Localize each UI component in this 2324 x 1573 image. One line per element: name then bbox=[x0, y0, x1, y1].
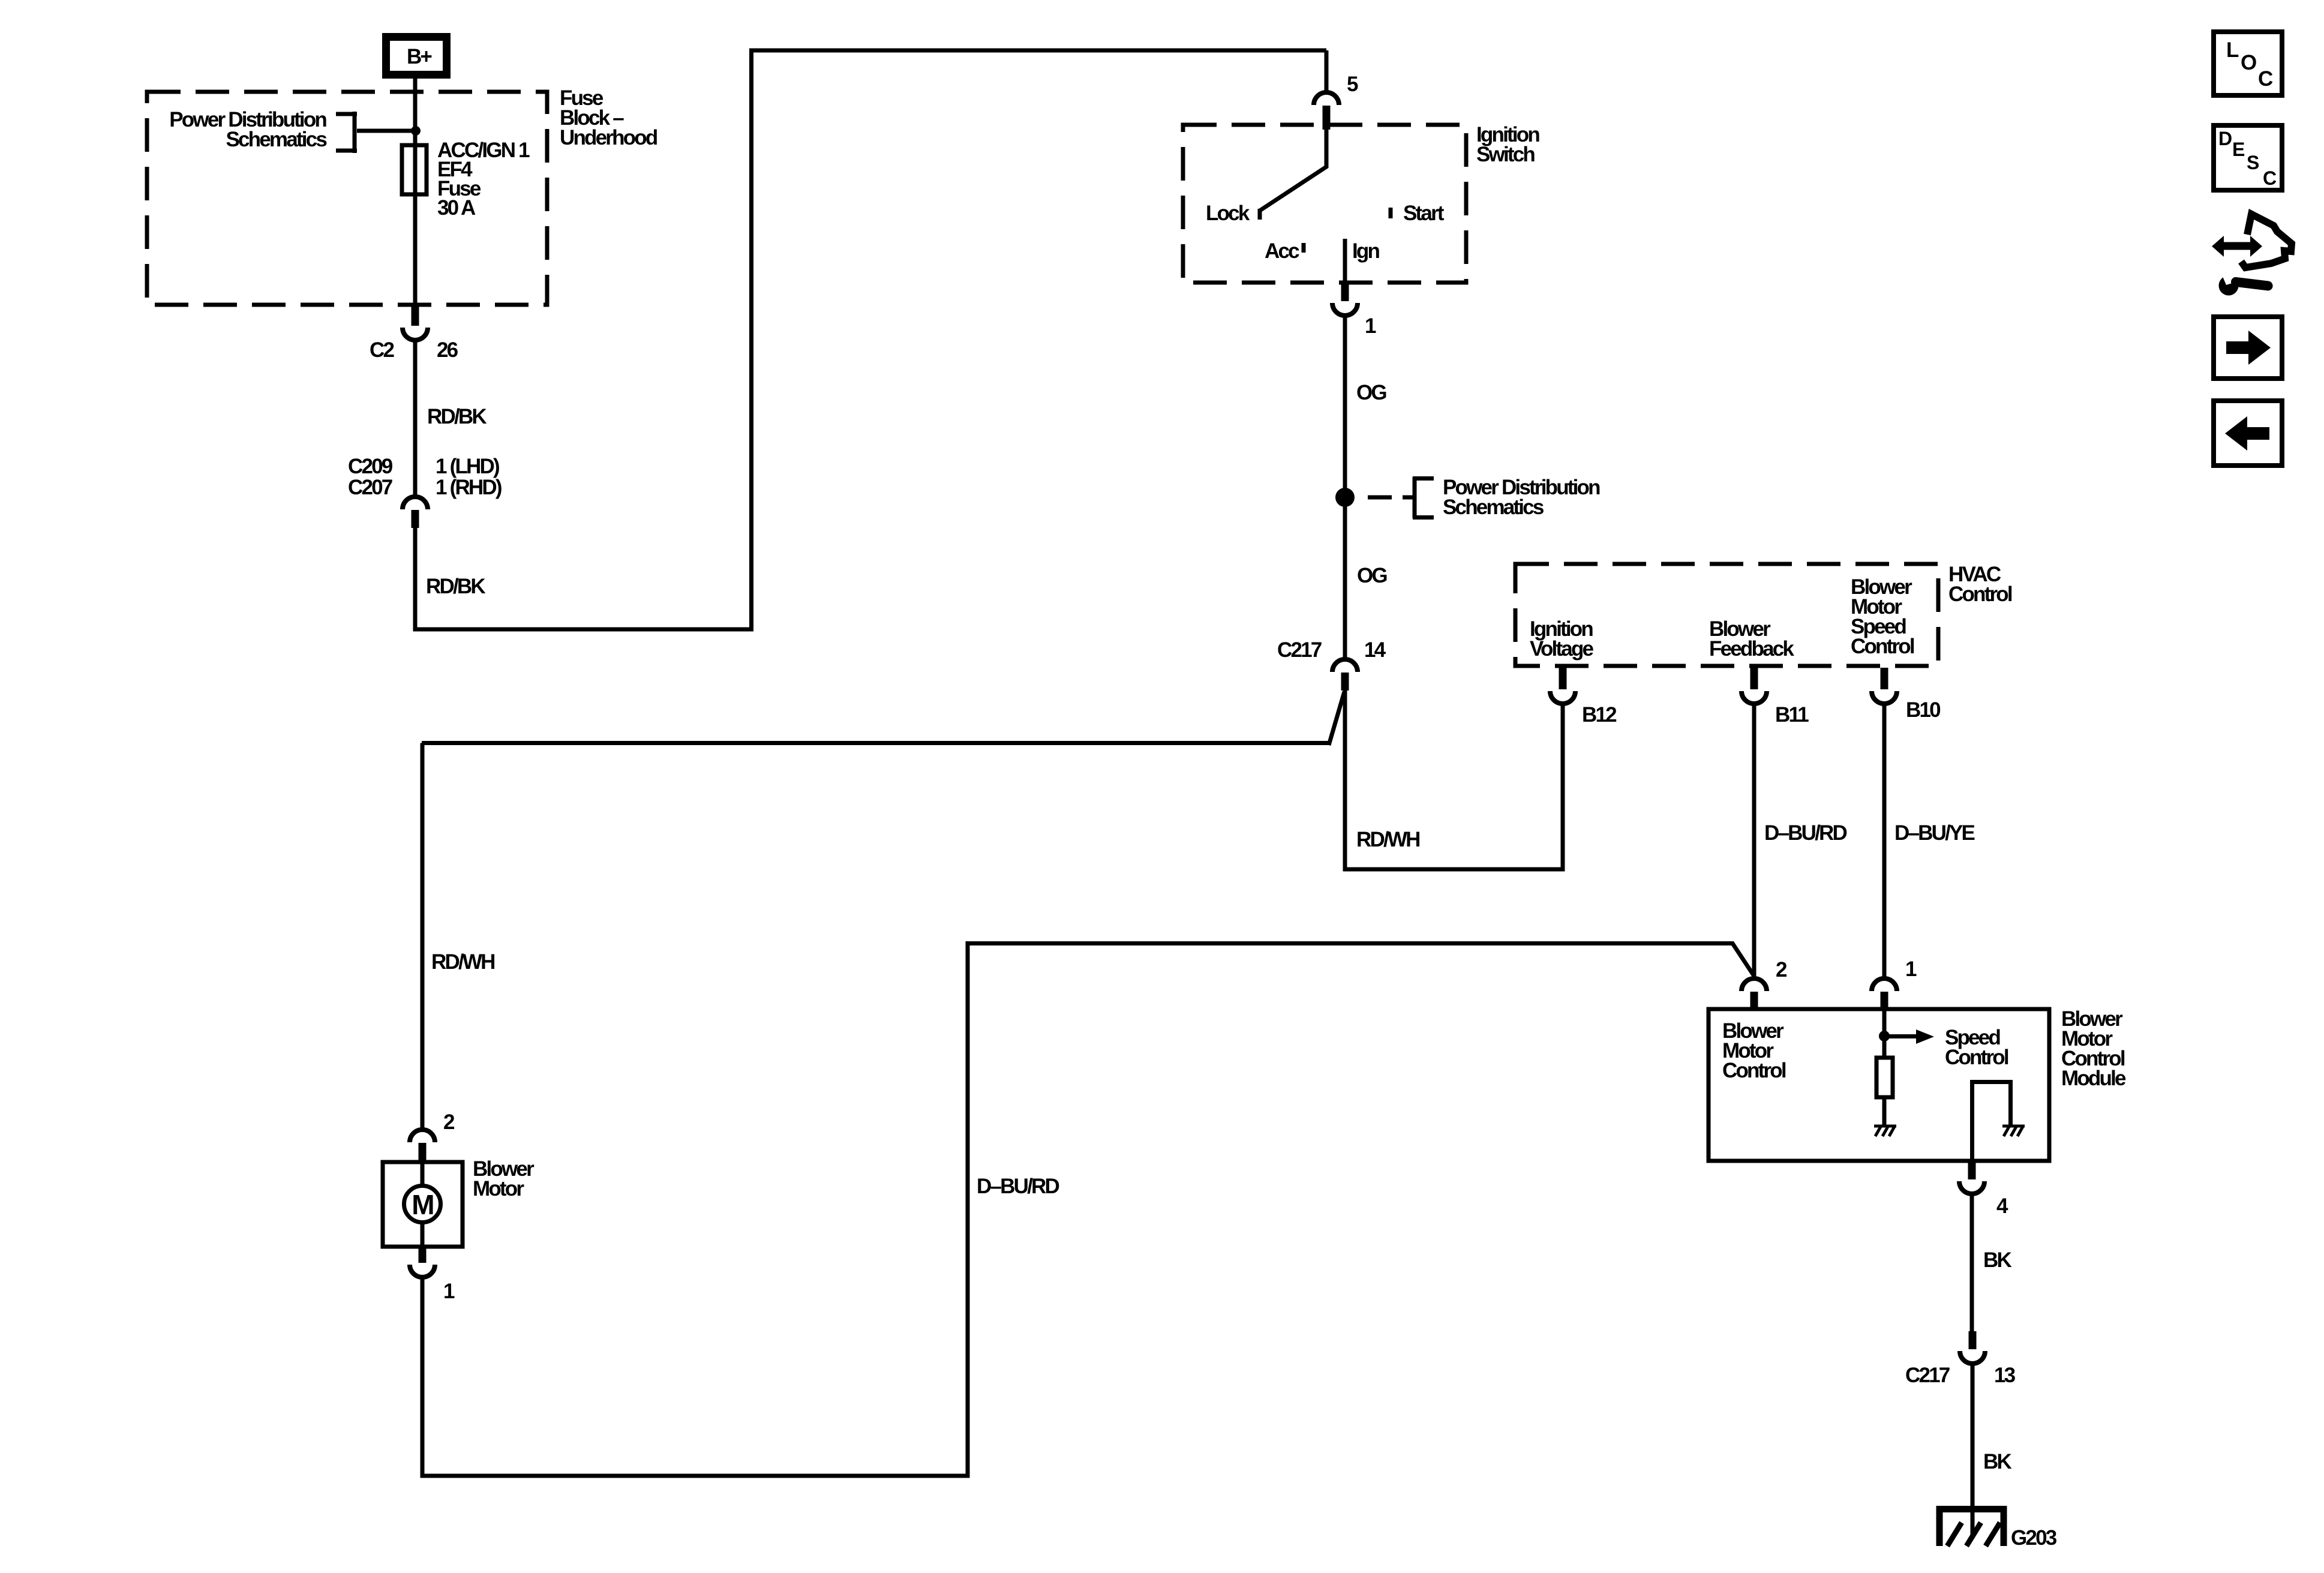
svg-text:C2: C2 bbox=[370, 338, 394, 362]
svg-text:D–BU/YE: D–BU/YE bbox=[1894, 821, 1975, 845]
svg-text:M: M bbox=[412, 1189, 433, 1220]
svg-text:Switch: Switch bbox=[1476, 143, 1535, 166]
svg-text:C217: C217 bbox=[1277, 638, 1322, 662]
svg-text:RD/BK: RD/BK bbox=[426, 575, 485, 598]
svg-text:C207: C207 bbox=[348, 476, 392, 499]
svg-text:G203: G203 bbox=[2011, 1526, 2057, 1550]
svg-text:OG: OG bbox=[1356, 381, 1386, 404]
svg-text:Control: Control bbox=[1722, 1059, 1786, 1082]
svg-text:1: 1 bbox=[443, 1280, 455, 1303]
svg-text:C: C bbox=[2263, 167, 2277, 189]
svg-text:C217: C217 bbox=[1905, 1364, 1950, 1387]
svg-text:Motor: Motor bbox=[473, 1177, 524, 1200]
svg-text:D: D bbox=[2218, 128, 2232, 149]
svg-text:C: C bbox=[2258, 67, 2273, 91]
svg-text:S: S bbox=[2247, 152, 2259, 173]
svg-text:Ign: Ign bbox=[1352, 239, 1380, 263]
svg-text:B11: B11 bbox=[1775, 703, 1809, 727]
svg-text:Feedback: Feedback bbox=[1709, 637, 1794, 661]
svg-text:Control: Control bbox=[1945, 1046, 2008, 1069]
svg-text:Module: Module bbox=[2061, 1067, 2126, 1090]
svg-text:E: E bbox=[2232, 139, 2245, 160]
svg-text:30 A: 30 A bbox=[437, 196, 476, 220]
svg-text:BK: BK bbox=[1983, 1248, 2011, 1272]
svg-text:B10: B10 bbox=[1906, 698, 1941, 722]
svg-text:1 (LHD): 1 (LHD) bbox=[436, 455, 499, 478]
svg-text:BK: BK bbox=[1983, 1450, 2011, 1473]
svg-text:Start: Start bbox=[1403, 202, 1445, 225]
svg-text:2: 2 bbox=[1776, 958, 1787, 981]
svg-text:26: 26 bbox=[437, 338, 458, 362]
svg-text:B+: B+ bbox=[407, 45, 432, 68]
svg-text:5: 5 bbox=[1347, 73, 1358, 96]
svg-text:2: 2 bbox=[443, 1110, 455, 1134]
svg-text:Schematics: Schematics bbox=[226, 128, 327, 151]
svg-text:14: 14 bbox=[1364, 638, 1386, 662]
svg-text:Underhood: Underhood bbox=[560, 126, 657, 149]
svg-text:Schematics: Schematics bbox=[1443, 496, 1544, 519]
svg-text:Voltage: Voltage bbox=[1530, 637, 1594, 661]
svg-text:B12: B12 bbox=[1582, 703, 1617, 727]
svg-text:RD/WH: RD/WH bbox=[431, 950, 494, 974]
svg-text:C209: C209 bbox=[348, 455, 393, 478]
svg-text:RD/WH: RD/WH bbox=[1356, 828, 1419, 851]
svg-text:RD/BK: RD/BK bbox=[427, 405, 487, 428]
svg-text:OG: OG bbox=[1357, 564, 1387, 587]
svg-text:1 (RHD): 1 (RHD) bbox=[436, 476, 502, 499]
svg-text:Lock: Lock bbox=[1206, 202, 1250, 225]
svg-text:O: O bbox=[2241, 51, 2256, 74]
svg-text:Acc: Acc bbox=[1265, 239, 1299, 263]
svg-text:13: 13 bbox=[1994, 1364, 2016, 1387]
svg-text:D–BU/RD: D–BU/RD bbox=[977, 1175, 1059, 1198]
svg-text:Control: Control bbox=[1851, 635, 1914, 658]
svg-text:L: L bbox=[2226, 38, 2239, 62]
svg-text:1: 1 bbox=[1365, 314, 1376, 338]
svg-text:1: 1 bbox=[1905, 957, 1917, 981]
svg-text:D–BU/RD: D–BU/RD bbox=[1764, 821, 1846, 845]
svg-text:Control: Control bbox=[1948, 583, 2012, 606]
